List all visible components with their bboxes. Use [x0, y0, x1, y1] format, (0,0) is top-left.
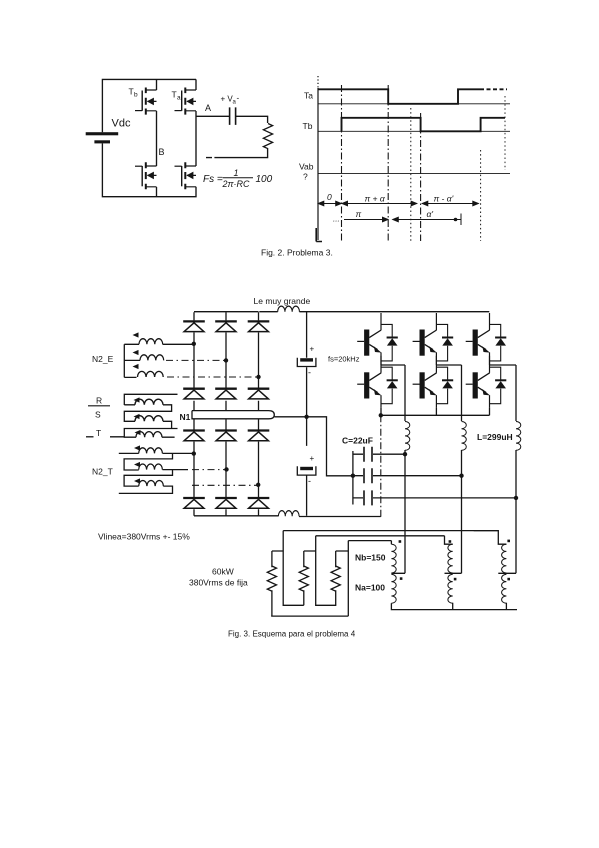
svg-text:π + α: π + α: [365, 194, 386, 204]
svg-text:2π·RC: 2π·RC: [222, 179, 251, 189]
svg-text:-: -: [308, 368, 311, 378]
svg-text:L=299uH: L=299uH: [477, 432, 513, 442]
svg-text:60kW: 60kW: [212, 567, 234, 577]
svg-text:Fig. 3. Esquema para el proble: Fig. 3. Esquema para el problema 4: [228, 630, 356, 639]
svg-text:?: ?: [303, 172, 308, 182]
svg-text:R: R: [96, 396, 102, 406]
svg-text:Fig. 2. Problema 3.: Fig. 2. Problema 3.: [261, 248, 333, 258]
svg-text:π: π: [356, 209, 362, 219]
svg-text:C=22uF: C=22uF: [342, 436, 373, 446]
svg-text:Vlinea=380Vrms +- 15%: Vlinea=380Vrms +- 15%: [98, 532, 190, 542]
svg-text:Na=100: Na=100: [355, 583, 385, 593]
svg-text:100: 100: [256, 174, 273, 185]
svg-text:Ta: Ta: [304, 91, 313, 101]
svg-text:S: S: [95, 410, 101, 420]
svg-text:Nb=150: Nb=150: [355, 553, 386, 563]
svg-text:Vab: Vab: [299, 162, 314, 172]
svg-text:Le muy grande: Le muy grande: [254, 296, 311, 306]
svg-text:B: B: [159, 147, 165, 157]
svg-text:T: T: [96, 428, 101, 438]
svg-text:N1: N1: [180, 412, 191, 422]
svg-text:fs=20kHz: fs=20kHz: [328, 355, 360, 364]
svg-text:N2_T: N2_T: [92, 467, 113, 477]
svg-text:Fs =: Fs =: [203, 174, 223, 185]
svg-text:+: +: [310, 454, 315, 463]
svg-text:1: 1: [234, 168, 239, 178]
svg-text:+: +: [310, 345, 315, 354]
svg-text:...: ...: [333, 215, 340, 224]
svg-text:Vdc: Vdc: [112, 118, 131, 130]
svg-text:N2_E: N2_E: [92, 354, 114, 364]
svg-text:π - α': π - α': [434, 194, 454, 204]
svg-text:380Vrms de fija: 380Vrms de fija: [189, 578, 248, 588]
svg-text:-: -: [237, 94, 240, 103]
svg-text:-: -: [308, 476, 311, 486]
svg-text:A: A: [205, 103, 211, 113]
svg-text:0: 0: [327, 192, 332, 202]
svg-text:Tb: Tb: [303, 121, 313, 131]
svg-text:T: T: [172, 90, 177, 100]
svg-text:α': α': [427, 209, 434, 219]
svg-text:+ V: + V: [221, 95, 234, 104]
svg-text:a: a: [177, 95, 181, 102]
svg-text:b: b: [134, 92, 138, 99]
svg-text:T: T: [129, 87, 134, 97]
